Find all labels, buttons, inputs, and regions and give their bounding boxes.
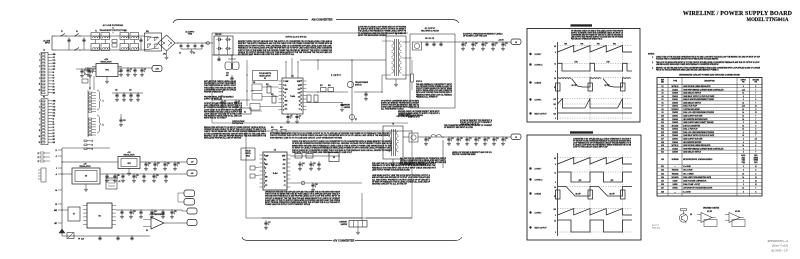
svg-text:AM CONVERTER: AM CONVERTER [311,18,332,22]
svg-text:.1: .1 [475,45,476,47]
svg-text:RW: RW [53,92,56,94]
svg-text:14: 14 [742,125,744,127]
svg-text:C20: C20 [226,73,229,75]
svg-text:7: 7 [755,89,756,91]
svg-text:LOW DROPOUT VOLTAGE REGULATOR: LOW DROPOUT VOLTAGE REGULATOR [683,187,713,190]
svg-text:.1: .1 [495,45,496,47]
svg-text:TXD: TXD [53,60,56,62]
svg-text:12: 12 [755,177,757,179]
svg-text:3: 3 [743,166,744,168]
svg-text:POWER LINE FOR SUPPLY OUTPUT R: POWER LINE FOR SUPPLY OUTPUT RESPECT APP… [265,203,311,206]
svg-text:REF: REF [661,79,664,81]
svg-text:REGULATOR: REGULATOR [79,165,91,168]
svg-text:8: 8 [755,109,756,111]
svg-text:K2: K2 [119,181,121,183]
svg-text:1/2 U25: 1/2 U25 [707,211,712,213]
svg-text:VOLTAGE THE BY CONVERTER CIRCU: VOLTAGE THE BY CONVERTER CIRCUIT FOR OF … [656,57,719,60]
svg-text:LM358: LM358 [673,184,678,186]
svg-text:4,5: 4,5 [755,138,757,140]
svg-text:0: 0 [555,164,556,166]
svg-text:0: 0 [555,118,556,120]
svg-text:U21: U21 [661,152,664,154]
svg-text:CLK: CLK [53,66,56,68]
svg-text:HEX INVERTER BUFFER/DRIVER: HEX INVERTER BUFFER/DRIVER [683,119,708,121]
svg-text:17(B): 17(B) [742,160,746,162]
svg-text:4.0: 4.0 [554,158,556,160]
svg-text:MOD: MOD [246,156,251,158]
svg-text:1: 1 [39,101,40,103]
svg-text:OSC: OSC [283,164,286,166]
svg-text:14: 14 [742,112,744,114]
svg-text:U7: U7 [73,214,75,216]
svg-text:E2: E2 [284,181,286,183]
svg-text:.1: .1 [92,72,93,74]
svg-text:3: 3 [743,191,744,193]
svg-text:5: 5 [39,66,40,68]
svg-text:8-BIT A/D CONVERTER: 8-BIT A/D CONVERTER [683,124,701,127]
svg-text:RXD: RXD [53,63,56,65]
svg-text:ALE: ALE [53,141,56,144]
svg-text:DUAL 1-OF-4 DECODER/DEMULTIPLE: DUAL 1-OF-4 DECODER/DEMULTIPLEXER [683,111,715,114]
svg-text:8: 8 [743,132,744,134]
svg-text:3: 3 [39,60,40,62]
svg-text:HIGH VOLTAGE LINEAR REGULATOR: HIGH VOLTAGE LINEAR REGULATOR [683,144,711,147]
svg-text:5.0: 5.0 [554,220,556,222]
svg-text:U2 OFF: U2 OFF [571,85,576,87]
svg-text:8: 8 [264,183,265,185]
svg-text:LIMITER: LIMITER [341,224,348,226]
svg-text:.1: .1 [133,213,134,215]
svg-text:CUSTOM GATE ARRAY: CUSTOM GATE ARRAY [683,108,700,111]
svg-text:14: 14 [742,129,744,131]
svg-text:14: 14 [554,172,556,174]
svg-text:U4 BIAS: U4 BIAS [535,193,542,196]
svg-text:.1: .1 [460,140,461,142]
svg-text:C7: C7 [84,74,86,76]
svg-text:MICROPROCESSOR, 8-DATA/16-ADDR: MICROPROCESSOR, 8-DATA/16-ADDRESS [683,158,712,161]
svg-text:D0: D0 [53,124,55,126]
svg-text:8: 8 [755,191,756,193]
svg-text:PIN: PIN [755,81,757,83]
svg-text:C27: C27 [157,163,160,165]
svg-text:.1: .1 [299,117,300,119]
svg-text:U4 PIN 5: U4 PIN 5 [535,213,542,215]
svg-text:C18: C18 [428,138,431,140]
svg-text:.1: .1 [144,71,145,73]
svg-text:15: 15 [39,142,41,144]
svg-text:.1: .1 [315,186,316,188]
svg-text:U4 PIN 10: U4 PIN 10 [535,180,543,182]
svg-text:R17: R17 [320,85,323,87]
svg-text:12: 12 [755,184,757,186]
svg-text:U25: U25 [661,180,664,182]
svg-text:17(B): 17(B) [742,162,746,164]
svg-text:7: 7 [755,96,756,98]
svg-text:C1: C1 [299,108,301,110]
svg-text:MC14023: MC14023 [672,177,679,179]
svg-text:C5: C5 [224,101,226,103]
svg-text:RT: RT [265,168,267,170]
svg-text:RT: RT [285,93,287,95]
svg-text:CD4049: CD4049 [672,142,678,144]
svg-text:VREF: VREF [282,156,286,158]
svg-text:T6: T6 [392,124,394,126]
svg-text:QUAD VOLTAGE COMPARATOR: QUAD VOLTAGE COMPARATOR [683,179,707,182]
svg-text:C11: C11 [485,43,488,45]
svg-text:OUT: OUT [285,104,288,106]
svg-text:OSC: OSC [298,89,301,91]
svg-text:CD4013: CD4013 [672,129,678,131]
svg-text:U20: U20 [661,159,664,161]
svg-text:K1: K1 [244,111,246,113]
svg-text:7(GND): 7(GND) [754,157,759,159]
svg-text:Q7: Q7 [355,119,357,121]
svg-text:.1: .1 [167,165,168,167]
svg-text:20(C): 20(C) [754,155,758,157]
svg-text:U21: U21 [661,166,664,168]
svg-text:.1: .1 [177,165,178,167]
svg-text:U1: U1 [661,86,663,88]
svg-text:10: 10 [300,102,302,104]
svg-text:9: 9 [39,124,40,126]
svg-text:WITH PIN IS TO THIS P: WITH PIN IS TO THIS P [204,118,227,120]
svg-text:MODEL TTN5041A: MODEL TTN5041A [747,18,789,23]
svg-text:REF: REF [54,223,57,225]
svg-text:GROUND CIRCUIT TO ALL IS THIS: GROUND CIRCUIT TO ALL IS THIS OF [372,183,408,186]
svg-text:U4 OFF: U4 OFF [609,194,614,196]
svg-text:D1: D1 [53,127,55,129]
svg-text:6: 6 [283,99,284,101]
svg-text:.1: .1 [478,140,479,142]
svg-text:1750: 1750 [574,62,577,64]
svg-text:14: 14 [742,102,744,104]
svg-text:C5: C5 [179,53,181,55]
svg-text:CLK: CLK [298,97,301,99]
svg-text:1,16: 1,16 [742,106,745,108]
svg-text:C2: C2 [92,70,94,72]
svg-text:U9: U9 [661,112,663,114]
svg-text:U18: U18 [661,142,664,144]
svg-text:C13: C13 [505,43,508,45]
svg-text:S1: S1 [76,31,78,33]
svg-text:LINE REGULATED REGULATED POWER: LINE REGULATED REGULATED POWER WITH FEED… [656,63,719,66]
svg-text:11: 11 [39,130,41,132]
svg-text:INPUT: INPUT [45,43,50,45]
svg-text:4(+5V): 4(+5V) [741,155,745,157]
svg-text:QUAD ANALOG SWITCH: QUAD ANALOG SWITCH [683,101,701,104]
svg-text:U4: U4 [661,96,663,98]
svg-text:1/2 U26: 1/2 U26 [735,211,740,213]
svg-text:6: 6 [264,175,265,177]
svg-text:INTEGRATED CIRCUIT POWER AND G: INTEGRATED CIRCUIT POWER AND GROUND CONN… [679,73,740,76]
svg-text:OUT: OUT [265,181,268,183]
svg-text:C20: C20 [460,138,463,140]
svg-text:8: 8 [743,86,744,88]
svg-text:.1: .1 [465,45,466,47]
svg-text:DUAL +5 FLIP-FLOP: DUAL +5 FLIP-FLOP [683,128,698,131]
svg-text:0.7: 0.7 [554,196,556,198]
svg-text:U4 OFF: U4 OFF [575,194,580,196]
svg-text:C31: C31 [136,175,139,177]
svg-text:U17: U17 [661,138,664,140]
svg-text:8: 8 [301,110,302,112]
svg-text:3: 3 [743,152,744,154]
svg-text:RST: RST [53,69,56,71]
svg-text:70%: 70% [564,44,568,46]
svg-text:MC78L12: MC78L12 [672,86,679,88]
svg-text:CT: CT [285,97,287,99]
svg-text:C7: C7 [290,116,292,118]
svg-text:C34: C34 [154,211,157,213]
svg-text:13: 13 [39,136,41,138]
svg-text:RECTIFIER & FILTER: RECTIFIER & FILTER [397,116,414,118]
svg-text:8: 8 [743,170,744,172]
svg-text:14: 14 [742,177,744,179]
svg-text:.1: .1 [505,45,506,47]
svg-text:A1: A1 [53,120,55,123]
svg-text:8: 8 [755,145,756,147]
svg-text:C23: C23 [487,138,490,140]
svg-text:14: 14 [742,93,744,95]
svg-text:U2 PIN 7: U2 PIN 7 [535,54,542,56]
svg-text:CD4001: CD4001 [672,138,678,140]
svg-text:VCC: VCC [285,108,288,110]
svg-text:VREF: VREF [297,81,301,83]
svg-text:DESCRIPTION: DESCRIPTION [704,81,714,83]
svg-text:U14: U14 [661,129,664,131]
svg-text:R21: R21 [266,84,269,86]
svg-text:1750: 1750 [606,62,609,64]
svg-text:ADC0831: ADC0831 [672,124,679,127]
svg-text:IC+4 OHM: IC+4 OHM [683,191,691,193]
svg-text:AC LINE FILTERING: AC LINE FILTERING [103,24,124,27]
svg-text:U6: U6 [98,216,101,218]
svg-text:UC3842: UC3842 [672,89,678,91]
svg-text:R31: R31 [271,127,274,129]
svg-text:.1: .1 [84,72,85,74]
svg-text:12: 12 [755,112,757,114]
svg-text:470: 470 [226,75,229,77]
svg-text:VR1: VR1 [105,70,109,72]
svg-text:TL494: TL494 [290,96,295,98]
svg-text:PROTECTION: PROTECTION [232,123,244,125]
svg-text:U15: U15 [661,132,664,134]
svg-text:COMP: COMP [265,156,269,158]
svg-text:TP 31V: TP 31V [78,239,85,241]
svg-text:D1: D1 [53,81,55,83]
svg-text:.1: .1 [290,117,291,119]
svg-text:DUAL 3-INPUT NON-INVERTING GAT: DUAL 3-INPUT NON-INVERTING GATE [683,176,711,179]
svg-text:+8: +8 [55,174,57,176]
svg-text:INPUT FOR REGULATED OPERATI: INPUT FOR REGULATED OPERATI [358,34,387,37]
svg-text:7: 7 [755,93,756,95]
svg-text:SWITCH: SWITCH [355,84,362,86]
svg-text:± 13.8 V: ± 13.8 V [331,73,341,77]
svg-text:0.25: 0.25 [553,209,556,211]
svg-text:CT: CT [265,172,267,174]
svg-text:E1: E1 [284,177,286,179]
svg-text:COMP: COMP [285,81,289,83]
svg-text:U2 PIN 10: U2 PIN 10 [535,65,543,67]
svg-text:.1: .1 [130,71,131,73]
svg-text:0.15: 0.15 [553,104,556,106]
svg-text:INT: INT [53,136,55,138]
svg-text:14: 14 [554,64,556,66]
svg-text:CLK: CLK [53,112,56,114]
svg-text:C32: C32 [156,175,159,177]
svg-text:DTC: DTC [298,93,301,95]
svg-text:AL/3390—1/F: AL/3390—1/F [770,249,788,253]
svg-text:TYPE: TYPE [673,81,677,83]
svg-text:QUAD BILAT SWITCH 1/2 FLIP-FLO: QUAD BILAT SWITCH 1/2 FLIP-FLOP GATE [683,134,714,137]
svg-text:23: 23 [38,161,40,163]
svg-text:QUAD 2-INPUT NAND SCHMITT TRIG: QUAD 2-INPUT NAND SCHMITT TRIGGER [683,121,714,124]
svg-text:NOTE 4:: NOTE 4: [416,81,423,83]
svg-text:GND: GND [53,54,56,56]
svg-text:C30 C31 C32: C30 C31 C32 [425,38,434,40]
svg-text:TMS4416: TMS4416 [672,173,679,175]
svg-text:D0: D0 [53,78,55,80]
svg-text:RST: RST [53,115,56,117]
svg-text:22: 22 [38,157,40,159]
svg-text:.1: .1 [174,213,175,215]
svg-text:J4: J4 [515,42,517,44]
svg-text:21: 21 [38,153,40,155]
svg-text:WIDTH: WIDTH [245,153,251,155]
svg-text:U9: U9 [146,230,148,232]
svg-text:E1: E1 [299,101,301,103]
svg-text:C29: C29 [177,163,180,165]
svg-text:20(C): 20(C) [754,162,758,164]
svg-text:11: 11 [301,99,303,101]
svg-text:U8: U8 [661,109,663,111]
svg-text:.1: .1 [313,165,314,167]
svg-text:R12: R12 [253,82,256,84]
svg-text:70%: 70% [613,44,617,46]
svg-text:5: 5 [39,113,40,115]
svg-text:.1: .1 [157,165,158,167]
svg-text:A4: A4 [55,189,57,192]
svg-text:0: 0 [555,232,556,234]
svg-text:+13.8V: +13.8V [498,40,505,42]
svg-text:ISEN: ISEN [285,89,288,91]
svg-text:HIGH PERFORMANCE CURRENT MODE: HIGH PERFORMANCE CURRENT MODE CONTROLLER [683,88,724,91]
svg-text:SC374017: SC374017 [671,109,678,111]
svg-text:.1: .1 [505,140,506,142]
svg-text:+12V: +12V [155,69,160,71]
svg-text:U4 PIN 7: U4 PIN 7 [535,169,542,171]
svg-text:SC450248: SC450248 [672,159,679,161]
svg-text:C26: C26 [148,163,151,165]
svg-text:CD4555: CD4555 [672,112,678,114]
svg-text:15: 15 [300,84,302,86]
svg-text:ISEN: ISEN [265,164,268,166]
svg-text:0.7: 0.7 [554,87,556,89]
svg-text:C6: C6 [238,101,240,103]
svg-text:C21: C21 [469,138,472,140]
svg-text:DUAL D FLIP-FLOP: DUAL D FLIP-FLOP [683,105,697,108]
svg-text:.1: .1 [487,140,488,142]
svg-text:1: 1 [39,54,40,56]
svg-text:7: 7 [755,119,756,121]
svg-text:7: 7 [39,118,40,120]
svg-text:7: 7 [755,116,756,118]
svg-text:3: 3 [39,107,40,109]
svg-text:GND: GND [265,177,268,179]
svg-text:U10: U10 [661,116,664,118]
svg-text:0: 0 [555,71,556,73]
svg-text:7(GND): 7(GND) [754,160,759,162]
svg-text:U23: U23 [661,173,664,175]
svg-text:GND: GND [54,210,57,212]
svg-text:U19: U19 [661,145,664,147]
svg-text:LM339: LM339 [673,180,678,182]
svg-text:100 x 8 ROM: 100 x 8 ROM [683,170,693,172]
svg-text:C3: C3 [130,69,132,71]
svg-text:16: 16 [742,135,744,137]
svg-text:14: 14 [742,116,744,118]
svg-text:Q9: Q9 [690,214,692,216]
svg-text:C15: C15 [313,163,316,165]
svg-text:C19: C19 [451,138,454,140]
svg-text:CLK: CLK [283,172,286,174]
svg-text:CD4066: CD4066 [672,152,678,154]
svg-text:+5V: +5V [53,104,56,106]
svg-text:3: 3 [743,184,744,186]
svg-text:11: 11 [39,84,41,86]
svg-text:9: 9 [301,106,302,108]
svg-text:C25: C25 [505,138,508,140]
svg-text:13: 13 [300,92,302,94]
svg-text:8: 8 [755,129,756,131]
svg-text:8: 8 [743,148,744,150]
svg-text:TL494: TL494 [273,173,278,175]
svg-text:8: 8 [755,170,756,172]
svg-text:.1: .1 [485,45,486,47]
svg-text:CR2-CR5: CR2-CR5 [215,34,222,36]
svg-text:.1: .1 [428,140,429,142]
svg-text:CR1: CR1 [163,54,166,56]
svg-text:PULSE: PULSE [245,151,250,153]
svg-text:+5V: +5V [191,162,194,164]
svg-text:C12: C12 [495,43,498,45]
svg-text:RV1: RV1 [146,31,149,33]
svg-text:DUAL OP AMP +5 VOLT: DUAL OP AMP +5 VOLT [683,183,700,186]
svg-text:C6: C6 [193,53,195,55]
svg-text:C24: C24 [496,138,499,140]
svg-text:RXD: RXD [53,109,56,111]
svg-text:GND: GND [53,101,56,103]
svg-text:INT: INT [53,90,55,92]
svg-text:.1: .1 [136,177,137,179]
svg-text:R18: R18 [328,85,331,87]
svg-text:70%: 70% [580,44,584,46]
svg-text:REPRINTED—A: REPRINTED—A [767,239,789,243]
svg-text:C13: C13 [123,120,126,122]
svg-text:100 + 8 DRAM: 100 + 8 DRAM [683,172,694,175]
svg-text:3009-78-2: 3009-78-2 [652,227,660,229]
svg-text:CD4013: CD4013 [672,106,678,108]
svg-text:9: 9 [39,78,40,80]
svg-text:DC SUPPLY: DC SUPPLY [186,32,196,34]
svg-text:0: 0 [555,215,556,217]
svg-text:.1: .1 [224,103,225,105]
svg-text:.1: .1 [469,140,470,142]
svg-text:14: 14 [92,149,94,151]
svg-text:U2: U2 [661,89,663,91]
svg-text:8: 8 [755,86,756,88]
svg-text:CS: CS [53,130,55,132]
